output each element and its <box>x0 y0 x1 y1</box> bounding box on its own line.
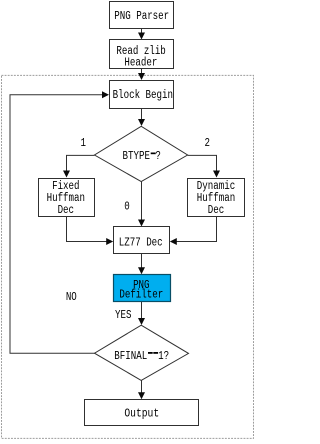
process box: PNG Defilter (highlighted) <box>114 275 171 303</box>
wire: BFINAL loop back to Block Begin <box>10 91 109 353</box>
process box: Output <box>85 400 199 426</box>
svg-text:Block Begin: Block Begin <box>113 89 173 102</box>
svg-text:Output: Output <box>124 408 159 421</box>
svg-text:Dec: Dec <box>208 204 224 217</box>
process box: PNG Parser <box>110 2 174 29</box>
process box: LZ77 Dec <box>114 227 170 254</box>
decision diamond: BTYPE=? <box>95 126 188 181</box>
wire: PNG Defilter to BFINAL decision <box>138 302 145 325</box>
decision diamond: BFINAL==1? <box>95 325 189 380</box>
svg-text:PNG Parser: PNG Parser <box>114 10 169 23</box>
process box: Read zlib Header <box>110 40 174 70</box>
dashed region border <box>2 75 254 438</box>
wire: Block Begin to BTYPE decision <box>138 109 145 127</box>
process box: Block Begin <box>110 81 174 109</box>
wire: LZ77 Dec to PNG Defilter <box>138 254 145 275</box>
svg-text:BTYPE ?: BTYPE ? <box>122 150 160 163</box>
svg-text:NO: NO <box>66 291 77 304</box>
wire: Fixed Huffman Dec to LZ77 Dec <box>67 217 114 246</box>
svg-text:1: 1 <box>81 137 87 150</box>
svg-text:0: 0 <box>124 201 130 214</box>
wire: BTYPE left branch to Fixed Huffman <box>63 155 95 177</box>
wire: PNG Parser to Read zlib Header <box>138 29 145 40</box>
svg-text:Defilter: Defilter <box>119 289 163 302</box>
svg-text:YES: YES <box>115 309 131 322</box>
svg-text:2: 2 <box>204 137 210 150</box>
wire: BFINAL to Output <box>138 380 145 399</box>
wire: BTYPE bottom to LZ77 Dec <box>138 182 145 227</box>
svg-text:BFINAL 1?: BFINAL 1? <box>114 350 169 363</box>
svg-text:Dec: Dec <box>58 204 74 217</box>
wire: BTYPE right branch to Dynamic Huffman <box>188 155 220 177</box>
process box: Fixed Huffman Dec <box>39 179 95 218</box>
process box: Dynamic Huffman Dec <box>188 179 245 218</box>
svg-text:Header: Header <box>124 56 157 69</box>
wire: Read zlib Header to Block Begin <box>138 69 145 80</box>
wire: Dynamic Huffman Dec to LZ77 Dec <box>170 217 217 246</box>
svg-text:LZ77 Dec: LZ77 Dec <box>119 237 163 250</box>
